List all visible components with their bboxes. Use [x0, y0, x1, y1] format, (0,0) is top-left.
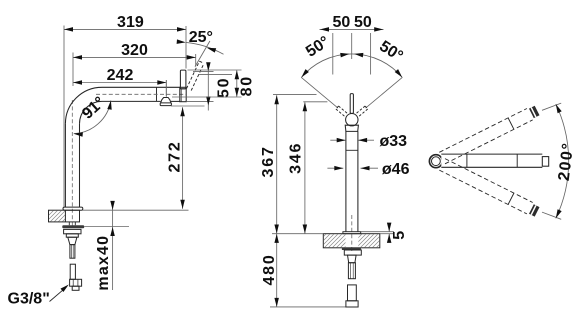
dimension 50 (right of head) [186, 62, 232, 110]
lever handle (front view, vertical) [350, 94, 353, 114]
dimension 319 (total projection, side view) [64, 14, 186, 207]
svg-text:320: 320 [121, 42, 148, 59]
head bottom extension line [171, 105, 205, 107]
connector line to arc, lower [542, 212, 561, 219]
svg-text:5: 5 [391, 231, 408, 240]
washer below counter (front view) [342, 248, 361, 250]
faucet curve (91 deg bend) [65, 87, 102, 124]
threaded rod (front view) [348, 263, 355, 279]
svg-text:319: 319 [117, 14, 144, 31]
50 deg swivel arc with arrows [301, 33, 405, 77]
svg-text:ø46: ø46 [382, 161, 410, 178]
lever handle tilted 25 deg (dashed) [187, 61, 204, 90]
svg-text:50: 50 [215, 77, 232, 98]
svg-text:242: 242 [107, 67, 134, 84]
faucet body: riser column (side view) [65, 100, 79, 228]
dimension 242 (to aerator axis) [73, 67, 166, 96]
svg-text:25°: 25° [189, 29, 213, 46]
svg-text:ø33: ø33 [380, 133, 408, 150]
countertop slab (front view, hatched) [272, 234, 394, 248]
pivot ring (top view) [429, 155, 442, 168]
200 deg swivel arc and label [556, 104, 578, 218]
mounting washer (dark) [62, 225, 84, 228]
spout arm (top view, solid, pointing right) [441, 154, 548, 167]
faucet column (front view) [346, 131, 358, 252]
svg-text:80: 80 [239, 75, 256, 96]
dimension 80 [172, 70, 256, 97]
svg-text:50: 50 [354, 14, 372, 31]
countertop slab (side view, hatched) [49, 210, 189, 222]
svg-text:G3/8": G3/8" [8, 291, 50, 308]
taper adapter (front view) [348, 255, 357, 263]
mounting nut [64, 229, 81, 237]
lever handle (vertical) [180, 70, 186, 89]
dimension o33 (column diameter) [330, 133, 407, 150]
svg-text:50: 50 [333, 14, 351, 31]
lever tilted 50deg left: guide line + dashed lever [301, 77, 347, 116]
hose end fitting (front view) [346, 301, 358, 307]
connector line to arc, upper [542, 103, 561, 110]
base plate on countertop [63, 207, 83, 210]
91 deg angle arc and label [74, 94, 112, 137]
spout tube (side view) [96, 87, 186, 101]
threaded rod [70, 245, 75, 259]
connection hose segment [70, 264, 75, 279]
dimension 320 [73, 42, 196, 86]
threaded shank through counter [69, 222, 75, 225]
25 deg lever tilt arc and label [177, 29, 224, 67]
hose segment (front view) [348, 285, 357, 301]
svg-text:346: 346 [288, 142, 305, 174]
base plate (front view) [343, 232, 394, 234]
mounting nut (front view) [344, 250, 361, 255]
dimension 5 (base plate height) [387, 223, 408, 243]
upper rotated spout position (dashed, top view) [439, 106, 539, 164]
G3/8 hex fitting [70, 279, 82, 290]
dimension 480 (hose length below counter) [261, 234, 352, 307]
ball collar [345, 125, 358, 131]
G3/8" label and leader [8, 285, 69, 308]
svg-text:max40: max40 [95, 235, 112, 291]
valve head body [180, 87, 186, 101]
dimension 346 (height to outlet) [288, 102, 328, 234]
dimension 367 (height to lever top) [260, 95, 316, 234]
svg-text:272: 272 [167, 140, 184, 172]
aerator / spray head dome [160, 80, 171, 106]
dimension 272 (spout height) [167, 107, 185, 209]
ball joint [346, 114, 358, 126]
svg-text:367: 367 [260, 145, 277, 177]
svg-text:480: 480 [261, 253, 278, 285]
lever tilted 50deg right: guide line + dashed lever [357, 77, 403, 116]
dimension o46 (base diameter) [327, 161, 409, 178]
dimension max40 (counter thickness) [84, 201, 129, 291]
dimension 50 50 (lever swivel offsets) [320, 14, 384, 74]
lower rotated spout position (dashed, top view) [439, 159, 539, 217]
taper adapter [68, 237, 77, 244]
